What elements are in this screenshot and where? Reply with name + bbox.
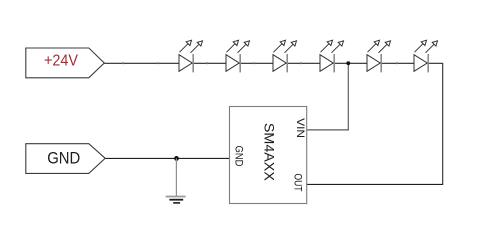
- LED D6: [414, 40, 438, 72]
- wire VIN net vertical: [347, 63, 349, 130]
- node dot wire 2: [157, 62, 159, 64]
- svg-text:GND: GND: [47, 149, 80, 168]
- LED D5: [367, 40, 391, 72]
- node dot wire 3: [206, 62, 208, 64]
- LED D2: [226, 40, 250, 72]
- svg-text:VIN: VIN: [294, 118, 306, 138]
- svg-text:OUT: OUT: [292, 174, 304, 192]
- wire GND net: [105, 157, 230, 159]
- LED D3: [273, 40, 297, 72]
- ground: [166, 158, 186, 203]
- power flag GND: [26, 144, 105, 174]
- node dot wire 6: [396, 62, 398, 64]
- junction dot VIN tap: [346, 61, 350, 65]
- IC U1 SM4AXX: [230, 107, 307, 204]
- svg-text:+24V: +24V: [44, 52, 79, 69]
- power flag +24V: [26, 48, 105, 78]
- svg-text:SM4AXX: SM4AXX: [262, 123, 278, 182]
- wire OUT net horizontal: [307, 183, 444, 185]
- wire right vertical LED return: [442, 63, 444, 184]
- svg-text:GND: GND: [233, 145, 245, 166]
- LED D1: [179, 40, 203, 72]
- wire VIN net horizontal: [307, 129, 349, 131]
- LED D4: [320, 40, 344, 72]
- wire +24V net top rail: [104, 62, 442, 64]
- node dot wire 5: [300, 62, 302, 64]
- junction dot ground tap: [174, 156, 179, 161]
- node dot wire 1: [122, 62, 124, 64]
- node dot wire 4: [253, 62, 255, 64]
